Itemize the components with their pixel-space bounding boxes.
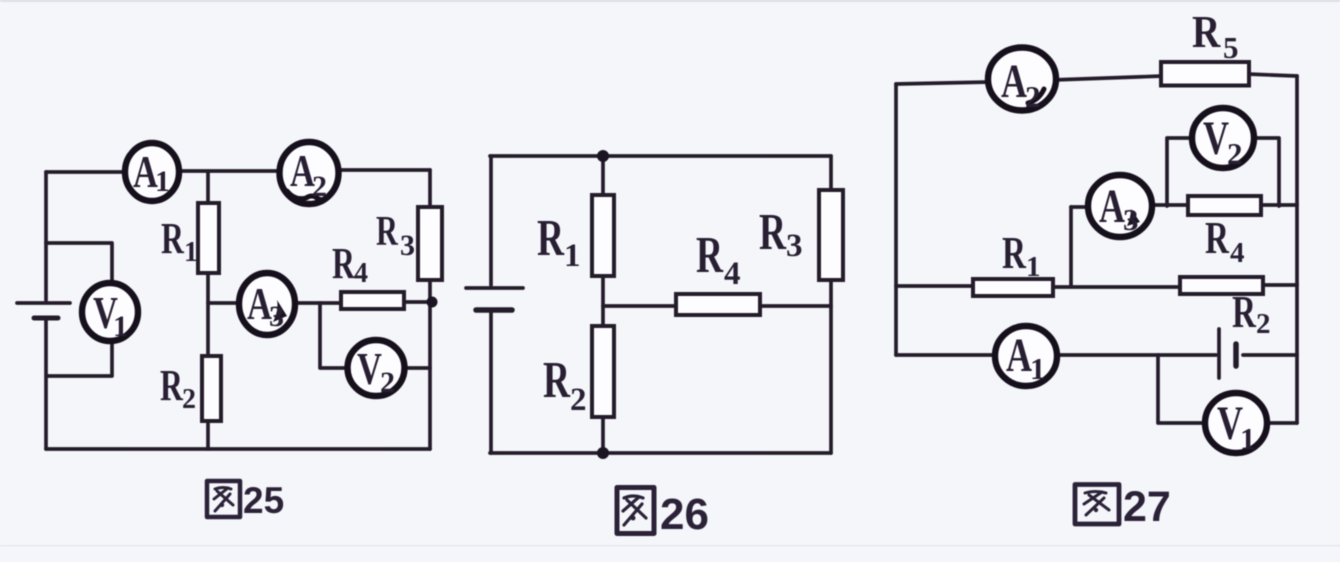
svg-text:R: R: [1205, 212, 1230, 264]
svg-text:2: 2: [1025, 79, 1041, 114]
svg-text:2: 2: [1256, 308, 1271, 340]
svg-text:4: 4: [354, 258, 368, 289]
svg-text:R: R: [537, 209, 565, 266]
svg-text:25: 25: [243, 480, 284, 521]
svg-text:R: R: [543, 351, 571, 408]
svg-text:R: R: [160, 362, 184, 410]
svg-text:1: 1: [1026, 251, 1041, 283]
svg-text:3: 3: [1123, 202, 1139, 237]
svg-text:1: 1: [155, 165, 170, 198]
svg-text:R: R: [161, 215, 185, 263]
svg-text:5: 5: [1223, 30, 1239, 65]
svg-text:1: 1: [113, 310, 128, 343]
svg-text:1: 1: [184, 237, 198, 268]
svg-text:R: R: [759, 203, 787, 260]
svg-text:2: 2: [182, 384, 196, 415]
svg-text:R: R: [1232, 286, 1257, 338]
svg-text:V: V: [357, 343, 382, 394]
svg-text:1: 1: [1240, 421, 1256, 456]
svg-text:A: A: [1006, 329, 1032, 382]
svg-text:R: R: [1002, 227, 1027, 279]
svg-text:4: 4: [724, 256, 741, 292]
svg-text:1: 1: [564, 238, 581, 274]
svg-text:A: A: [1001, 55, 1027, 108]
svg-text:27: 27: [1123, 483, 1171, 531]
svg-text:2: 2: [312, 170, 327, 203]
svg-text:R: R: [696, 226, 724, 283]
svg-text:R: R: [332, 240, 356, 288]
svg-text:3: 3: [400, 229, 415, 262]
svg-text:R: R: [1192, 7, 1221, 58]
svg-text:3: 3: [786, 228, 803, 264]
svg-text:3: 3: [269, 300, 284, 333]
svg-text:R: R: [376, 207, 398, 254]
svg-text:4: 4: [1230, 237, 1245, 269]
svg-text:2: 2: [570, 382, 587, 418]
svg-text:V: V: [1203, 112, 1229, 165]
svg-text:2: 2: [1227, 136, 1243, 171]
svg-text:26: 26: [660, 490, 709, 539]
svg-text:2: 2: [380, 366, 395, 399]
svg-text:A: A: [1099, 180, 1125, 233]
svg-text:1: 1: [1030, 351, 1046, 386]
